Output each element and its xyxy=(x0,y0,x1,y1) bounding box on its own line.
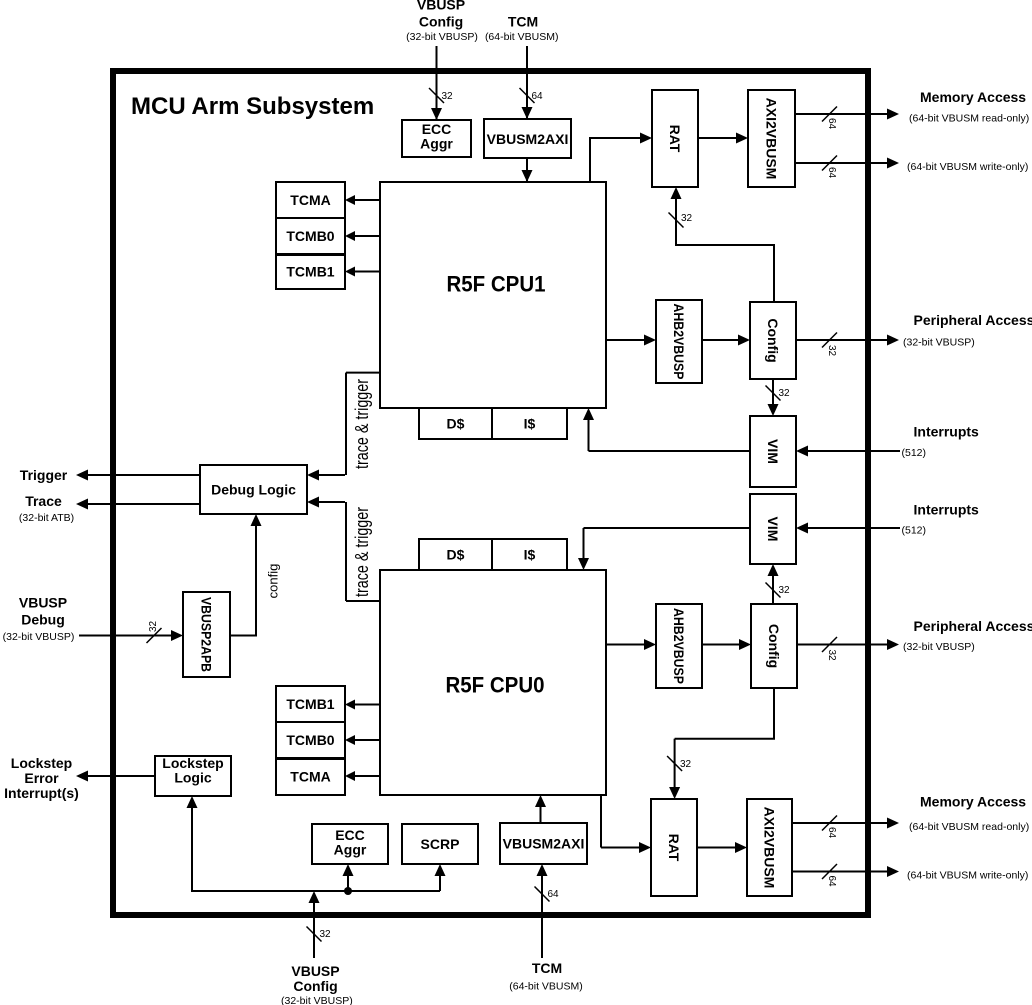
svg-text:(32-bit VBUSP): (32-bit VBUSP) xyxy=(281,995,353,1005)
svg-text:Config: Config xyxy=(766,624,782,668)
svg-text:TCM: TCM xyxy=(532,960,562,976)
wire CPU0 to TCMB0 xyxy=(355,739,380,741)
svg-text:32: 32 xyxy=(779,388,791,399)
svg-text:I$: I$ xyxy=(524,547,536,563)
wire Config to RAT (top) xyxy=(773,245,775,302)
block D$ cache (CPU0) xyxy=(419,539,492,570)
svg-text:(64-bit VBUSM): (64-bit VBUSM) xyxy=(509,981,583,993)
block VIM (bottom) xyxy=(750,494,796,564)
block AHB2VBUSP (bottom) xyxy=(656,604,702,688)
wire CPU0 to TCMA xyxy=(355,775,380,777)
wire AXI2VBUSM read port (bottom) xyxy=(792,822,888,824)
svg-text:(32-bit VBUSP): (32-bit VBUSP) xyxy=(903,641,975,653)
wire interrupts into VIM (bottom) xyxy=(808,527,900,529)
svg-text:64: 64 xyxy=(826,827,837,839)
wire Lockstep Logic input xyxy=(191,807,193,892)
block TCMB0 (CPU0) xyxy=(276,722,345,758)
wire CPU1 to AHB2VBUSP xyxy=(606,339,645,341)
svg-text:RAT: RAT xyxy=(667,125,683,153)
wire Trigger output xyxy=(88,474,200,476)
block R5F CPU1 xyxy=(380,182,606,408)
block TCMB1 (CPU1) xyxy=(276,254,345,289)
svg-text:TCMA: TCMA xyxy=(290,192,330,208)
block Config (top) xyxy=(750,302,796,379)
wire Config to VIM (bottom) xyxy=(772,575,774,604)
svg-text:(512): (512) xyxy=(902,525,927,537)
block VBUSM2AXI (top) xyxy=(484,119,571,158)
wire CPU1 to RAT xyxy=(589,137,591,182)
junction dot xyxy=(344,887,352,895)
block AXI2VBUSM (top) xyxy=(748,90,795,187)
wire Trace output xyxy=(88,503,200,505)
wire config VBUSP2APB to Debug Logic xyxy=(230,635,256,637)
svg-text:Interrupts: Interrupts xyxy=(914,502,980,518)
wire VBUSM2AXI to R5F CPU1 xyxy=(526,158,528,181)
block Config (bottom) xyxy=(751,604,797,688)
wire VIM to CPU0 xyxy=(584,527,751,529)
block TCMB0 (CPU1) xyxy=(276,218,345,254)
outer boundary box MCU Arm Subsystem xyxy=(113,71,868,915)
svg-text:VBUSP2APB: VBUSP2APB xyxy=(199,597,215,672)
svg-text:64: 64 xyxy=(532,91,544,102)
svg-text:config: config xyxy=(266,564,281,599)
wire CPU0 to AHB2VBUSP xyxy=(606,644,645,646)
svg-text:64: 64 xyxy=(826,876,837,888)
svg-text:R5F CPU1: R5F CPU1 xyxy=(447,272,546,297)
wire RAT to AXI2VBUSM (bottom) xyxy=(697,847,736,849)
svg-text:Peripheral Access: Peripheral Access xyxy=(914,618,1032,634)
svg-text:(512): (512) xyxy=(902,447,927,459)
svg-text:TCMB1: TCMB1 xyxy=(286,696,334,712)
svg-text:Config: Config xyxy=(293,978,337,994)
svg-text:AHB2VBUSP: AHB2VBUSP xyxy=(671,608,687,684)
svg-text:32: 32 xyxy=(442,91,454,102)
svg-text:(64-bit VBUSM write-only): (64-bit VBUSM write-only) xyxy=(907,870,1028,882)
wire AHB2VBUSP to Config (top) xyxy=(702,339,739,341)
wire TCM to VBUSM2AXI xyxy=(526,46,528,118)
block TCMA (CPU0) xyxy=(276,758,345,795)
wire AXI2VBUSM write port (top) xyxy=(795,162,888,164)
svg-text:TCMB0: TCMB0 xyxy=(286,732,334,748)
wire CPU0 to TCMB1 xyxy=(355,704,380,706)
wire trace-trigger CPU1 to Debug Logic xyxy=(346,372,380,374)
block TCMA (CPU1) xyxy=(276,182,345,218)
wire VBUSM2AXI to CPU0 xyxy=(540,806,542,823)
svg-text:AXI2VBUSM: AXI2VBUSM xyxy=(762,807,778,889)
svg-text:Trace: Trace xyxy=(25,493,62,509)
svg-text:Memory Access: Memory Access xyxy=(920,89,1026,105)
wire trace-trigger CPU0 to Debug Logic xyxy=(346,600,380,602)
svg-text:VBUSP: VBUSP xyxy=(19,595,67,611)
svg-text:Peripheral Access: Peripheral Access xyxy=(914,312,1032,328)
svg-text:VBUSP: VBUSP xyxy=(417,0,465,13)
svg-text:32: 32 xyxy=(148,620,159,632)
svg-text:Error: Error xyxy=(24,770,59,786)
svg-text:(32-bit VBUSP): (32-bit VBUSP) xyxy=(3,631,75,643)
block RAT (bottom) xyxy=(651,799,697,896)
block SCRP xyxy=(402,824,478,864)
wire CPU1 to TCMB1 xyxy=(355,271,380,273)
wire Config to VIM (top) xyxy=(772,379,774,404)
svg-text:Interrupt(s): Interrupt(s) xyxy=(4,785,79,801)
block RAT (top) xyxy=(652,90,698,187)
block R5F CPU0 xyxy=(380,570,606,795)
wire CPU1 to TCMB0 xyxy=(355,235,380,237)
svg-text:TCMB0: TCMB0 xyxy=(286,228,334,244)
svg-text:Lockstep: Lockstep xyxy=(11,755,72,771)
block VBUSM2AXI (bottom) xyxy=(500,823,587,864)
wire VIM to CPU1 xyxy=(589,450,751,452)
block I$ cache (CPU0) xyxy=(492,539,567,570)
svg-text:32: 32 xyxy=(779,585,791,596)
svg-text:TCMB1: TCMB1 xyxy=(286,264,334,280)
wire VBUSP Debug input xyxy=(79,635,172,637)
svg-text:TCM: TCM xyxy=(508,14,538,30)
wire RAT to AXI2VBUSM (top) xyxy=(698,137,737,139)
svg-text:64: 64 xyxy=(548,889,560,900)
wire AXI2VBUSM read port (top) xyxy=(795,113,888,115)
svg-text:32: 32 xyxy=(680,759,692,770)
wire Config peripheral port (bottom) xyxy=(797,644,888,646)
svg-text:TCMA: TCMA xyxy=(290,769,330,785)
block AXI2VBUSM (bottom) xyxy=(747,799,792,896)
svg-text:Aggr: Aggr xyxy=(334,842,367,858)
block ECC Aggr (bottom) xyxy=(312,824,388,864)
svg-text:(64-bit VBUSM read-only): (64-bit VBUSM read-only) xyxy=(909,821,1029,833)
svg-text:Memory Access: Memory Access xyxy=(920,794,1026,810)
svg-text:(64-bit VBUSM): (64-bit VBUSM) xyxy=(485,31,559,43)
svg-text:trace & trigger: trace & trigger xyxy=(352,507,372,597)
svg-text:R5F CPU0: R5F CPU0 xyxy=(446,673,545,698)
svg-text:(64-bit VBUSM write-only): (64-bit VBUSM write-only) xyxy=(907,161,1028,173)
wire Config peripheral port (top) xyxy=(796,339,888,341)
wire AHB2VBUSP to Config (bottom) xyxy=(702,644,740,646)
svg-text:(64-bit VBUSM read-only): (64-bit VBUSM read-only) xyxy=(909,113,1029,125)
svg-text:32: 32 xyxy=(826,650,837,662)
svg-text:Config: Config xyxy=(765,318,781,362)
svg-text:32: 32 xyxy=(826,345,837,357)
svg-text:D$: D$ xyxy=(447,416,465,432)
svg-text:D$: D$ xyxy=(447,547,465,563)
svg-text:32: 32 xyxy=(320,929,332,940)
svg-text:64: 64 xyxy=(826,167,837,179)
wire Config to RAT (bottom) xyxy=(773,688,775,739)
block VBUSP2APB xyxy=(183,592,230,677)
svg-text:I$: I$ xyxy=(524,416,536,432)
wire CPU1 to TCMA xyxy=(355,199,380,201)
block Lockstep Logic xyxy=(155,756,231,796)
svg-text:AHB2VBUSP: AHB2VBUSP xyxy=(671,304,687,380)
block AHB2VBUSP (top) xyxy=(656,300,702,383)
block I$ cache (CPU1) xyxy=(492,408,567,439)
wire AXI2VBUSM write port (bottom) xyxy=(792,871,888,873)
svg-text:Interrupts: Interrupts xyxy=(914,424,980,440)
svg-text:VBUSM2AXI: VBUSM2AXI xyxy=(503,836,585,852)
svg-text:VBUSP: VBUSP xyxy=(291,963,339,979)
svg-text:Debug: Debug xyxy=(21,612,65,628)
svg-text:Aggr: Aggr xyxy=(420,136,453,152)
svg-text:SCRP: SCRP xyxy=(421,836,460,852)
svg-text:Debug Logic: Debug Logic xyxy=(211,482,296,498)
svg-text:Logic: Logic xyxy=(174,770,212,786)
svg-text:32: 32 xyxy=(681,213,693,224)
svg-text:VBUSM2AXI: VBUSM2AXI xyxy=(487,131,569,147)
svg-text:AXI2VBUSM: AXI2VBUSM xyxy=(764,98,780,180)
wire TCM input (bottom) xyxy=(541,875,543,958)
svg-text:VIM: VIM xyxy=(765,517,781,542)
svg-text:(32-bit VBUSP): (32-bit VBUSP) xyxy=(903,337,975,349)
svg-text:RAT: RAT xyxy=(666,834,682,862)
block VIM (top) xyxy=(750,416,796,487)
svg-text:(32-bit VBUSP): (32-bit VBUSP) xyxy=(406,31,478,43)
wire bus to ECC Aggr (bottom) xyxy=(347,875,349,891)
wire CPU0 to RAT (bottom) xyxy=(600,795,602,848)
svg-text:MCU Arm Subsystem: MCU Arm Subsystem xyxy=(131,93,374,120)
wire interrupts into VIM (top) xyxy=(808,450,900,452)
block D$ cache (CPU1) xyxy=(419,408,492,439)
wire bottom config bus xyxy=(192,890,440,892)
svg-text:VIM: VIM xyxy=(765,439,781,464)
wire bus to SCRP xyxy=(439,875,441,891)
block ECC Aggr (top) xyxy=(402,120,471,157)
svg-text:64: 64 xyxy=(826,118,837,130)
wire VBUSP Config to ECC Aggr xyxy=(436,46,438,119)
svg-text:trace & trigger: trace & trigger xyxy=(352,379,372,469)
svg-text:Config: Config xyxy=(419,14,463,30)
block TCMB1 (CPU0) xyxy=(276,686,345,722)
wire VBUSP Config input (bottom) xyxy=(313,902,315,958)
wire Lockstep Error output xyxy=(88,775,155,777)
svg-text:Trigger: Trigger xyxy=(20,467,68,483)
block Debug Logic xyxy=(200,465,307,514)
svg-text:(32-bit ATB): (32-bit ATB) xyxy=(19,512,74,524)
